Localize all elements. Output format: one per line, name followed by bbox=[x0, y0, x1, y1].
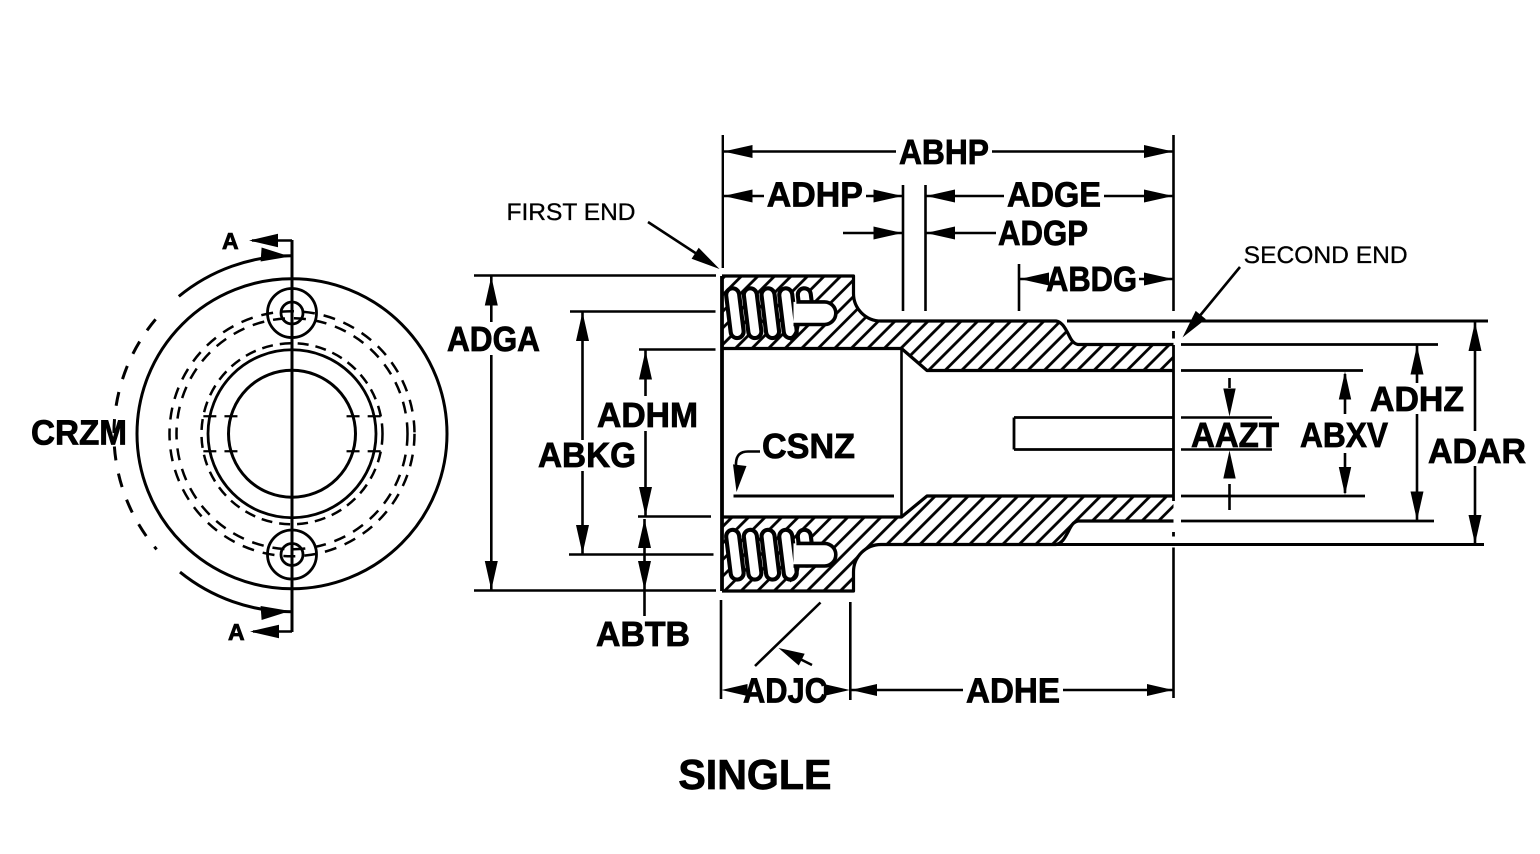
svg-text:ADGE: ADGE bbox=[1007, 176, 1101, 215]
svg-text:AAZT: AAZT bbox=[1191, 416, 1279, 455]
svg-text:ADHM: ADHM bbox=[597, 396, 698, 435]
svg-text:A: A bbox=[228, 619, 245, 645]
svg-text:ADHZ: ADHZ bbox=[1370, 380, 1464, 419]
svg-text:ABDG: ABDG bbox=[1046, 260, 1137, 299]
svg-text:ADHP: ADHP bbox=[767, 176, 863, 215]
svg-text:ABHP: ABHP bbox=[899, 133, 989, 172]
svg-text:SINGLE: SINGLE bbox=[678, 751, 831, 798]
svg-text:FIRST END: FIRST END bbox=[507, 199, 636, 226]
svg-text:ABKG: ABKG bbox=[538, 436, 636, 475]
svg-text:ADGA: ADGA bbox=[447, 320, 540, 359]
svg-text:CSNZ: CSNZ bbox=[762, 427, 855, 466]
svg-text:CRZM: CRZM bbox=[31, 414, 127, 453]
svg-text:ABXV: ABXV bbox=[1300, 416, 1389, 455]
svg-text:ADAR: ADAR bbox=[1428, 432, 1526, 471]
svg-text:ADGP: ADGP bbox=[998, 214, 1088, 253]
svg-text:SECOND END: SECOND END bbox=[1244, 242, 1408, 269]
svg-text:ABTB: ABTB bbox=[596, 615, 690, 654]
svg-text:A: A bbox=[222, 228, 239, 254]
svg-text:ADJC: ADJC bbox=[743, 672, 827, 711]
svg-text:ADHE: ADHE bbox=[966, 672, 1060, 711]
